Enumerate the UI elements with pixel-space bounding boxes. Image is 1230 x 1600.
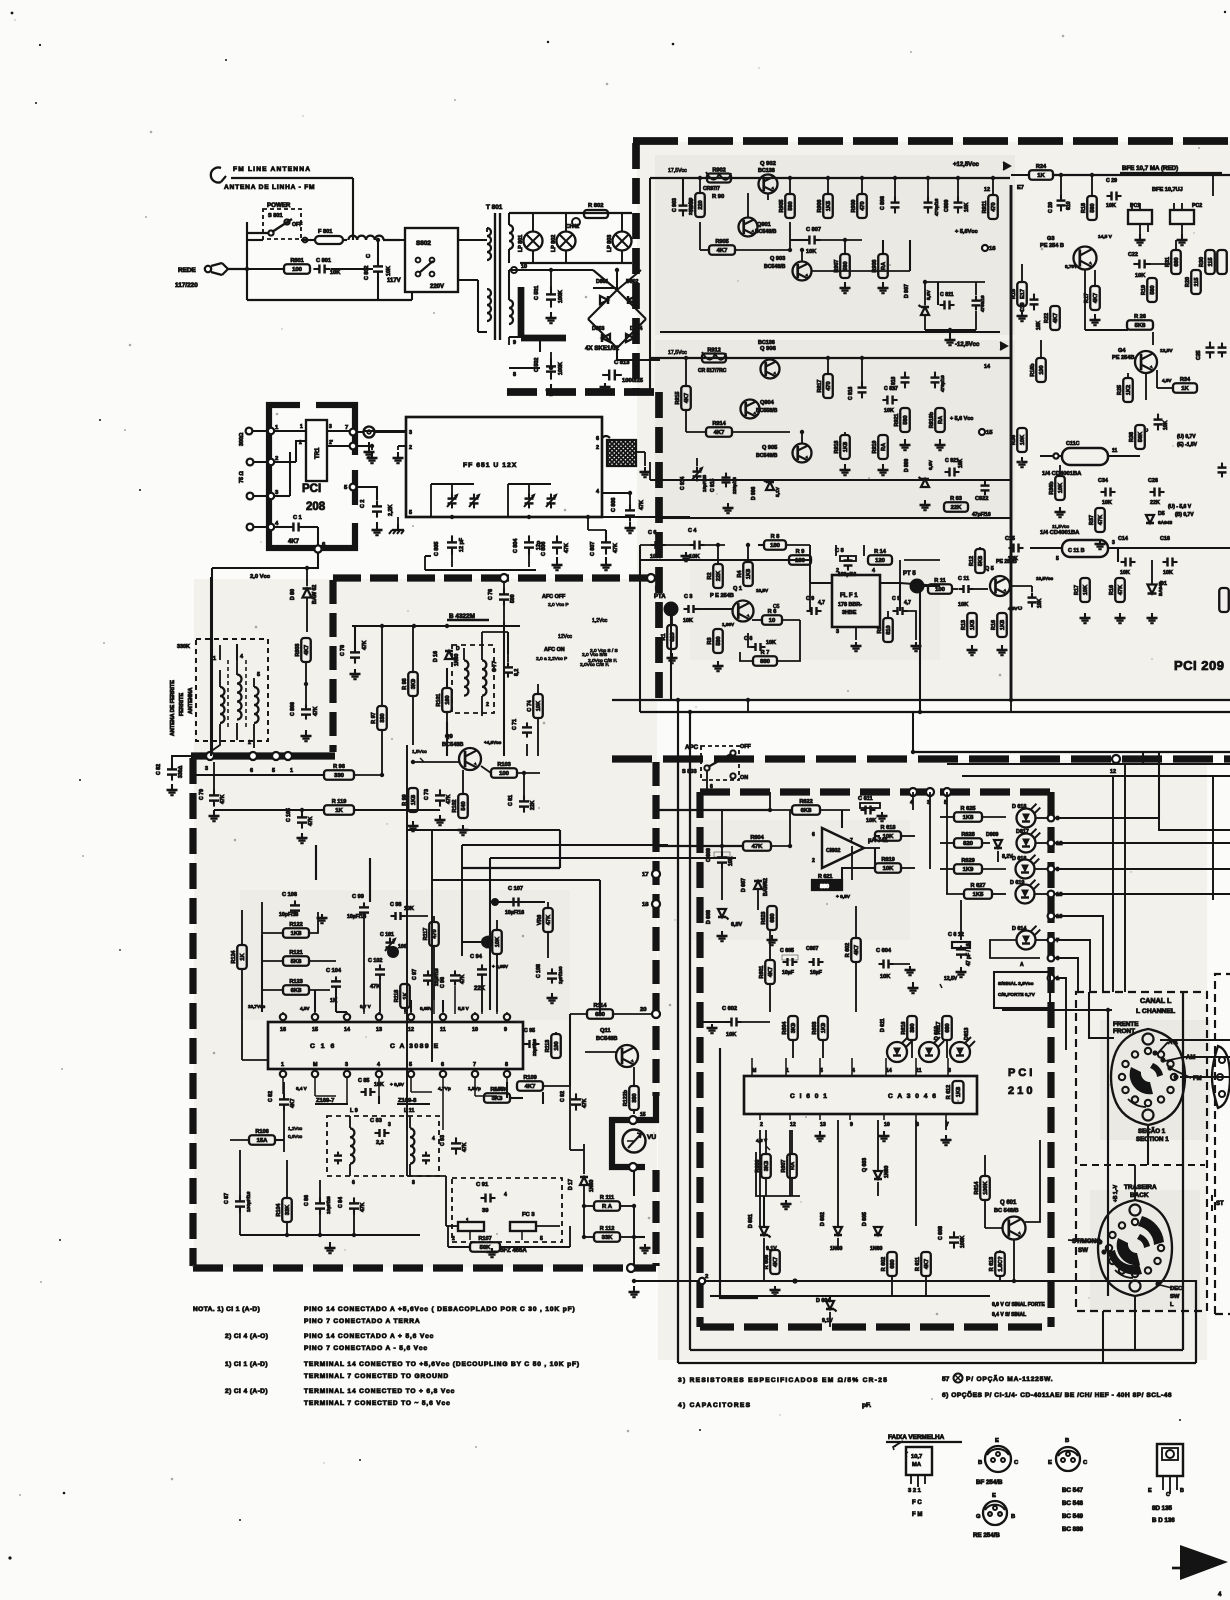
svg-text:R4: R4 bbox=[737, 571, 743, 578]
capacitor C86 bbox=[304, 1180, 332, 1235]
svg-text:C 76: C 76 bbox=[488, 589, 494, 600]
svg-text:6,8V: 6,8V bbox=[731, 922, 742, 928]
svg-text:BACK: BACK bbox=[1130, 1192, 1149, 1199]
power bus dashed bbox=[507, 388, 659, 396]
svg-text:C 3: C 3 bbox=[684, 594, 692, 600]
svg-text:D 602: D 602 bbox=[820, 1212, 826, 1226]
svg-text:R801: R801 bbox=[290, 258, 303, 264]
wire lamp bottom rail bbox=[509, 249, 632, 263]
inner frame PCI210 bbox=[720, 1048, 758, 1298]
svg-text:4: 4 bbox=[872, 568, 875, 574]
resistor R607 vertical bbox=[781, 1130, 797, 1196]
svg-text:C 82: C 82 bbox=[268, 1091, 274, 1102]
svg-text:10: 10 bbox=[1056, 914, 1063, 920]
svg-text:C 602: C 602 bbox=[722, 1006, 737, 1012]
svg-text:2: 2 bbox=[596, 445, 599, 451]
capacitor C105 bbox=[286, 808, 314, 843]
svg-text:39: 39 bbox=[482, 1208, 489, 1214]
svg-text:12,5V: 12,5V bbox=[944, 976, 958, 982]
resistor R98 vertical bbox=[402, 626, 418, 745]
svg-text:C 29: C 29 bbox=[1106, 178, 1117, 184]
svg-text:FERRITE: FERRITE bbox=[179, 693, 185, 716]
svg-text:470µ/16: 470µ/16 bbox=[934, 198, 940, 216]
label 2,0Vcc S/S bbox=[590, 648, 618, 654]
LED D612b bbox=[1012, 855, 1060, 879]
coil L11 bbox=[410, 1116, 435, 1176]
capacitor C805 bbox=[434, 535, 465, 567]
svg-text:57: 57 bbox=[942, 1376, 950, 1383]
svg-text:160: 160 bbox=[445, 695, 451, 704]
pin mid box bottom bbox=[627, 1264, 635, 1272]
resistor R103 bbox=[481, 762, 540, 778]
label 4X SKE1/02 bbox=[585, 345, 620, 352]
label BFE 10,7UJ bbox=[1152, 187, 1183, 193]
svg-text:4: 4 bbox=[240, 654, 243, 660]
svg-text:C A 3089 E: C A 3089 E bbox=[390, 1043, 440, 1050]
capacitor C809 bbox=[944, 176, 970, 214]
svg-text:FL F 1: FL F 1 bbox=[840, 593, 858, 599]
capacitor C917 bbox=[882, 386, 898, 414]
svg-text:R9: R9 bbox=[877, 627, 883, 634]
svg-text:G3: G3 bbox=[1047, 236, 1054, 242]
svg-text:D 17: D 17 bbox=[568, 1179, 574, 1190]
IC CI601 CA3046 bbox=[744, 1076, 977, 1114]
svg-text:47K: 47K bbox=[613, 543, 619, 553]
capacitor C77 bbox=[482, 632, 520, 678]
diode D602 bbox=[820, 1212, 843, 1252]
capacitor C608 bbox=[938, 1226, 966, 1249]
resistor R801 bbox=[245, 258, 310, 274]
wire ca3089 pin drops bbox=[283, 1082, 507, 1130]
svg-text:4K7: 4K7 bbox=[288, 539, 300, 545]
wire opamp feedback bbox=[790, 810, 875, 885]
wire q9 base bbox=[411, 760, 459, 764]
capacitor C502 bbox=[534, 352, 564, 395]
svg-text:C 108: C 108 bbox=[536, 964, 542, 978]
pinout BC547 bbox=[1048, 1438, 1088, 1533]
wire pins top feeds bbox=[262, 935, 507, 1012]
capacitor C71 bbox=[512, 719, 532, 738]
svg-text:Q904: Q904 bbox=[760, 400, 775, 406]
svg-text:4,7: 4,7 bbox=[904, 600, 911, 606]
svg-text:M: M bbox=[313, 1062, 318, 1068]
svg-text:33K: 33K bbox=[285, 1205, 291, 1215]
svg-text:pF.: pF. bbox=[862, 1402, 871, 1409]
svg-text:100: 100 bbox=[398, 944, 407, 950]
svg-text:CANAL L: CANAL L bbox=[1140, 996, 1172, 1005]
svg-text:C 802: C 802 bbox=[364, 266, 370, 280]
resistor R913 vertical bbox=[675, 356, 691, 410]
ground R908 bbox=[878, 282, 889, 293]
svg-text:C 11 B: C 11 B bbox=[1068, 548, 1085, 554]
svg-text:BAW 62: BAW 62 bbox=[312, 585, 318, 604]
resistor R16b vertical bbox=[1030, 340, 1046, 382]
pin VU bottom bbox=[629, 1163, 637, 1171]
svg-text:10K: 10K bbox=[1037, 598, 1043, 608]
svg-text:RA: RA bbox=[881, 262, 887, 270]
svg-text:115: 115 bbox=[1194, 277, 1200, 286]
svg-text:R13: R13 bbox=[961, 620, 967, 630]
svg-text:D 618: D 618 bbox=[1012, 856, 1026, 862]
svg-text:R628: R628 bbox=[961, 832, 974, 838]
svg-text:10K: 10K bbox=[1163, 420, 1169, 430]
resistor R908 vertical bbox=[872, 240, 888, 278]
label 2,0Vcc C/S b bbox=[580, 662, 609, 668]
svg-text:115: 115 bbox=[1208, 257, 1214, 266]
svg-text:1K5: 1K5 bbox=[973, 892, 985, 898]
balun TR1 bbox=[306, 420, 327, 481]
pin 12 bbox=[984, 185, 1024, 193]
line filter choke L801 bbox=[348, 236, 400, 240]
svg-text:12,5V: 12,5V bbox=[1160, 348, 1173, 354]
PCI208 pin 4 bbox=[268, 521, 288, 530]
wire PCI209 strip1 bottom rail bbox=[660, 332, 1010, 712]
svg-text:FAIXA VERMELHA: FAIXA VERMELHA bbox=[888, 1434, 945, 1441]
svg-text:R 11: R 11 bbox=[934, 578, 946, 584]
svg-text:47K: 47K bbox=[360, 1202, 366, 1212]
capacitor C919 bbox=[931, 372, 946, 392]
svg-text:D 612: D 612 bbox=[934, 1026, 940, 1040]
resistor R917 vertical bbox=[817, 356, 833, 398]
svg-text:10K: 10K bbox=[1102, 500, 1112, 506]
svg-text:10K: 10K bbox=[883, 834, 895, 840]
wire pin8 net bbox=[507, 1082, 523, 1098]
svg-text:10K: 10K bbox=[958, 602, 968, 608]
resistor R912 bbox=[698, 347, 727, 374]
svg-text:C 4: C 4 bbox=[688, 528, 696, 534]
wire R112 down bbox=[629, 1206, 640, 1297]
divider dashed bbox=[1080, 1164, 1205, 1166]
svg-text:10K: 10K bbox=[1163, 570, 1173, 576]
svg-text:13: 13 bbox=[820, 1122, 826, 1128]
svg-text:100: 100 bbox=[292, 267, 303, 273]
svg-text:12Vcc: 12Vcc bbox=[558, 634, 572, 640]
capacitor C802 bbox=[364, 238, 392, 280]
svg-text:R34: R34 bbox=[1180, 377, 1191, 383]
sig levels box bbox=[994, 962, 1050, 1008]
main IF box top border bbox=[333, 574, 655, 581]
svg-text:R921: R921 bbox=[894, 414, 900, 427]
svg-text:10K: 10K bbox=[495, 937, 501, 947]
svg-text:10K: 10K bbox=[958, 458, 964, 468]
PCI208 pin 8 bbox=[350, 443, 375, 450]
svg-text:C 6: C 6 bbox=[648, 530, 656, 536]
PCI210 box top border bbox=[700, 788, 1051, 795]
svg-text:0,6Vcc: 0,6Vcc bbox=[288, 1134, 303, 1139]
capacitor C97 bbox=[412, 968, 440, 986]
svg-text:R 602: R 602 bbox=[881, 1257, 887, 1271]
capacitor C104 bbox=[326, 968, 342, 1012]
svg-text:C922: C922 bbox=[975, 496, 988, 502]
svg-text:PINO 14 CONECTADO A + 5,6: PINO 14 CONECTADO A + 5,6 Vcc bbox=[304, 1333, 434, 1340]
svg-text:C 805: C 805 bbox=[434, 542, 440, 556]
ground PCI210 left bbox=[908, 982, 919, 993]
terminal 300ohm A bbox=[239, 428, 268, 446]
svg-text:R15: R15 bbox=[1011, 289, 1017, 299]
label 0V sinal bbox=[992, 1302, 1045, 1318]
svg-text:680: 680 bbox=[1174, 257, 1180, 266]
transistor Q903 bbox=[764, 222, 812, 281]
svg-text:R 14: R 14 bbox=[874, 549, 887, 555]
svg-text:380: 380 bbox=[632, 1093, 638, 1102]
label DEC SW L bbox=[1155, 1281, 1183, 1308]
pinout BF254 bbox=[976, 1438, 1019, 1486]
svg-text:C: C bbox=[1166, 1492, 1170, 1498]
svg-text:6K8: 6K8 bbox=[801, 808, 813, 814]
capacitor C3 bbox=[683, 594, 712, 624]
svg-text:C 604: C 604 bbox=[876, 948, 892, 954]
svg-text:1K: 1K bbox=[240, 953, 246, 960]
resistor R627 bbox=[946, 883, 1006, 899]
svg-text:4K7: 4K7 bbox=[304, 645, 310, 655]
svg-text:3K3: 3K3 bbox=[492, 1096, 504, 1102]
svg-text:500: 500 bbox=[510, 594, 516, 603]
svg-text:10: 10 bbox=[884, 1122, 890, 1128]
svg-text:E: E bbox=[992, 1493, 996, 1499]
pin 21 on border bbox=[647, 574, 662, 592]
svg-text:10K: 10K bbox=[330, 270, 340, 276]
svg-text:R619: R619 bbox=[881, 857, 894, 863]
svg-text:BC 547: BC 547 bbox=[1062, 1487, 1084, 1494]
svg-text:C 808: C 808 bbox=[611, 498, 617, 512]
svg-text:3HBE: 3HBE bbox=[842, 610, 857, 616]
svg-text:D 605: D 605 bbox=[862, 1212, 868, 1226]
right channel wafer partial bbox=[1212, 1046, 1230, 1108]
svg-text:R 612: R 612 bbox=[946, 1085, 952, 1099]
svg-text:12 pF: 12 pF bbox=[459, 537, 465, 552]
label 12Vcc bbox=[558, 634, 572, 640]
wire canal internal feed bbox=[1106, 1008, 1110, 1296]
svg-text:R607: R607 bbox=[781, 1160, 787, 1173]
svg-text:R12: R12 bbox=[969, 556, 975, 566]
svg-text:75 Ω: 75 Ω bbox=[239, 471, 245, 483]
transistor Q906 bbox=[758, 340, 780, 379]
svg-text:4K7: 4K7 bbox=[684, 393, 690, 403]
label AFC ON bbox=[536, 647, 567, 662]
svg-text:4: 4 bbox=[504, 1192, 507, 1198]
svg-text:1,2Vcc: 1,2Vcc bbox=[288, 1126, 303, 1131]
svg-text:R909: R909 bbox=[851, 200, 857, 213]
svg-text:2,2K: 2,2K bbox=[388, 505, 394, 516]
wire lower rail bbox=[425, 556, 536, 570]
svg-text:NOTA. 1) CI 1 (A-D): NOTA. 1) CI 1 (A-D) bbox=[193, 1306, 260, 1313]
switch S802 bbox=[387, 228, 458, 292]
label -12,5Vcc bbox=[650, 342, 1007, 392]
svg-text:10,5V: 10,5V bbox=[756, 588, 769, 593]
capacitor C916 bbox=[848, 356, 867, 400]
svg-text:R16: R16 bbox=[1109, 585, 1115, 595]
svg-text:2: 2 bbox=[248, 740, 251, 746]
svg-text:SEÇÃO 1: SEÇÃO 1 bbox=[1138, 1128, 1166, 1135]
label ME vertical bbox=[1113, 1184, 1119, 1202]
svg-text:1: 1 bbox=[300, 424, 303, 430]
svg-text:R 8: R 8 bbox=[771, 534, 780, 540]
label C5 bbox=[773, 604, 780, 610]
svg-text:22K: 22K bbox=[1150, 500, 1160, 506]
resistor R603 vertical bbox=[812, 1016, 828, 1058]
diode D1 bbox=[1147, 560, 1167, 623]
svg-text:C: C bbox=[366, 254, 372, 258]
FF651 pin 5 bbox=[409, 510, 412, 516]
svg-text:T 801: T 801 bbox=[486, 204, 503, 211]
svg-text:4K7: 4K7 bbox=[1053, 313, 1059, 323]
wire left feeders bbox=[211, 222, 247, 756]
FF651 right pin 4 bbox=[596, 489, 599, 495]
svg-text:TRASEIRA: TRASEIRA bbox=[1124, 1184, 1157, 1191]
main IF box right border upper bbox=[652, 762, 659, 1096]
transistor Q11 bbox=[585, 1028, 638, 1067]
label +5,6Vcc bbox=[955, 229, 996, 252]
wire led out 12 bbox=[1055, 842, 1230, 844]
lamp LP 801 bbox=[518, 213, 543, 263]
svg-text:100µF/16: 100µF/16 bbox=[246, 1191, 252, 1212]
svg-text:C 101: C 101 bbox=[380, 932, 394, 938]
svg-text:D 80: D 80 bbox=[290, 589, 296, 600]
label SFZ455A bbox=[487, 1247, 528, 1257]
svg-text:C 82: C 82 bbox=[156, 764, 162, 775]
svg-text:C 85: C 85 bbox=[358, 1078, 369, 1084]
svg-text:B: B bbox=[1011, 1514, 1015, 1520]
svg-text:R614: R614 bbox=[974, 1182, 980, 1195]
svg-text:4700/16: 4700/16 bbox=[980, 295, 985, 312]
resistor R919 vertical bbox=[872, 435, 888, 459]
LED D613 bbox=[950, 1027, 975, 1062]
notes block bbox=[193, 1306, 580, 1407]
svg-text:560: 560 bbox=[903, 415, 909, 424]
svg-text:15: 15 bbox=[640, 1112, 646, 1118]
svg-text:BC 548/B: BC 548/B bbox=[994, 1208, 1019, 1214]
wire ca3089 top drops bbox=[242, 935, 497, 1060]
svg-text:4) CAPACITORES: 4) CAPACITORES bbox=[678, 1402, 751, 1409]
capacitor C808 bbox=[602, 491, 645, 533]
FM line antenna lead-in bbox=[211, 168, 226, 183]
zener D907 bbox=[904, 282, 932, 330]
svg-text:R108: R108 bbox=[490, 1087, 503, 1093]
svg-text:17,5Vcc: 17,5Vcc bbox=[668, 350, 687, 356]
label AFC OFF bbox=[542, 594, 569, 608]
svg-text:C 1 6: C 1 6 bbox=[310, 1043, 336, 1050]
resistor R9b bbox=[789, 549, 811, 565]
svg-text:10: 10 bbox=[769, 618, 776, 624]
svg-text:560: 560 bbox=[788, 201, 794, 210]
resistor R905 vertical bbox=[779, 176, 795, 218]
svg-text:56K: 56K bbox=[480, 1245, 492, 1251]
capacitor C812 bbox=[925, 282, 985, 345]
svg-text:C 903: C 903 bbox=[672, 198, 678, 212]
svg-text:R 112: R 112 bbox=[600, 1226, 615, 1232]
ground lower strip bbox=[723, 503, 734, 513]
wire canal feeds2 bbox=[1089, 992, 1230, 1363]
svg-text:SW: SW bbox=[1078, 1247, 1088, 1254]
capacitor C26 bbox=[1148, 478, 1165, 506]
svg-text:100: 100 bbox=[554, 1041, 560, 1050]
FF651 right pin 2 bbox=[596, 445, 599, 451]
svg-text:CR 517/7RC: CR 517/7RC bbox=[698, 368, 727, 374]
resistor R618 bbox=[875, 825, 915, 841]
svg-text:Q 902: Q 902 bbox=[760, 161, 776, 167]
op-amp CI602 bbox=[812, 828, 888, 868]
label POWER bbox=[267, 202, 291, 209]
PCI208 pin 2 bbox=[268, 441, 306, 465]
right edge parts bbox=[1213, 175, 1229, 612]
svg-text:OFF: OFF bbox=[740, 744, 751, 750]
resistor R15 vertical bbox=[1011, 264, 1028, 321]
resistor R99 vertical bbox=[402, 788, 419, 831]
svg-text:C25: C25 bbox=[1196, 350, 1202, 360]
svg-text:1N60: 1N60 bbox=[589, 1179, 595, 1192]
capacitor C6 bbox=[744, 633, 776, 651]
wire led out 10 bbox=[1055, 916, 1103, 992]
svg-text:1N60: 1N60 bbox=[830, 1246, 843, 1252]
main IF box terminal bus bbox=[191, 752, 335, 759]
label L9 bbox=[350, 1108, 358, 1114]
svg-text:ANTENA DE FERRITE: ANTENA DE FERRITE bbox=[170, 680, 176, 736]
tuning gang C804a bbox=[508, 484, 551, 508]
resistor R914 bbox=[686, 410, 790, 437]
VU meter bbox=[623, 1130, 657, 1153]
svg-text:117V: 117V bbox=[387, 278, 401, 284]
svg-text:47K: 47K bbox=[462, 1142, 468, 1152]
pin VU top bbox=[629, 1116, 637, 1124]
svg-text:560: 560 bbox=[1090, 203, 1096, 212]
svg-text:C 608: C 608 bbox=[938, 1226, 944, 1240]
svg-text:C 107: C 107 bbox=[508, 886, 523, 892]
svg-text:CH42: CH42 bbox=[566, 224, 579, 230]
resistor R111 bbox=[582, 1195, 636, 1211]
svg-text:4K7: 4K7 bbox=[1093, 293, 1099, 303]
svg-text:12: 12 bbox=[408, 1027, 414, 1033]
svg-text:TERMINAL 14 CONECTED TO: TERMINAL 14 CONECTED TO + 6,8 Vcc bbox=[304, 1388, 455, 1395]
svg-text:6: 6 bbox=[352, 1180, 355, 1186]
rotary wafer back bbox=[1098, 1200, 1172, 1296]
svg-text:8: 8 bbox=[513, 372, 516, 378]
resistor R609 vertical bbox=[881, 1252, 897, 1276]
svg-text:R 9: R 9 bbox=[796, 549, 805, 555]
wire led out 6 bbox=[1055, 958, 1078, 992]
LED D611b bbox=[1016, 829, 1063, 853]
svg-text:1K8: 1K8 bbox=[1000, 620, 1006, 630]
svg-text:D 601: D 601 bbox=[748, 1214, 754, 1228]
svg-text:R905: R905 bbox=[779, 200, 785, 213]
svg-text:R102: R102 bbox=[452, 800, 458, 813]
svg-text:1N60: 1N60 bbox=[870, 1246, 883, 1252]
svg-text:8: 8 bbox=[412, 1180, 415, 1186]
bridge diode D801 bbox=[593, 279, 617, 304]
resistor R17c vertical bbox=[1074, 578, 1091, 623]
resistor R1 vertical bbox=[661, 616, 678, 663]
capacitor C914 bbox=[680, 458, 707, 492]
wafer front labels bbox=[1152, 1040, 1201, 1082]
wire IF output bus A bbox=[612, 699, 1230, 701]
svg-text:C 92: C 92 bbox=[560, 1091, 566, 1102]
svg-text:22µF/16: 22µF/16 bbox=[532, 1039, 537, 1056]
svg-text:6: 6 bbox=[710, 784, 713, 790]
svg-text:RA: RA bbox=[938, 416, 944, 424]
svg-text:100: 100 bbox=[499, 771, 510, 777]
pin 20 mid border bbox=[640, 1007, 660, 1018]
svg-text:C I 6 0 1: C I 6 0 1 bbox=[790, 1093, 828, 1100]
svg-text:13: 13 bbox=[1056, 892, 1063, 898]
svg-text:G4: G4 bbox=[1118, 348, 1126, 354]
svg-text:VR6: VR6 bbox=[537, 915, 543, 926]
switch S801 bbox=[263, 209, 302, 239]
label FM LINE ANTENNA bbox=[233, 166, 311, 173]
PCI208 pin 7 bbox=[345, 425, 363, 435]
svg-text:0,7 V: 0,7 V bbox=[360, 1004, 372, 1009]
capacitor C15 bbox=[1005, 536, 1024, 562]
resistor VR6 vertical bbox=[537, 902, 553, 958]
label B4322M bbox=[447, 613, 489, 620]
